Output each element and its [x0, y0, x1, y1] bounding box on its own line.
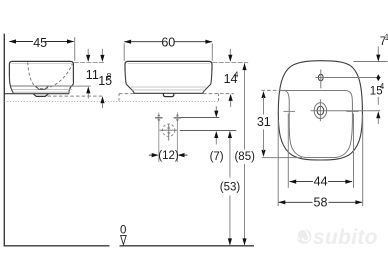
side view bottom line (counter top from wall) — [4, 93, 69, 95]
svg-text:44: 44 — [314, 175, 328, 189]
tap hole line to right — [316, 77, 381, 79]
counter dashed rectangle — [119, 93, 134, 95]
dimension 11 — [87, 49, 89, 56]
line B from drain circle — [180, 130, 237, 132]
side view interior lines — [11, 85, 73, 87]
side view drain bump — [33, 94, 48, 97]
extension line right of 45 — [74, 37, 76, 61]
back edge extension line — [353, 61, 387, 63]
svg-text:11: 11 — [86, 68, 99, 82]
dimension 44 extension lines — [287, 114, 289, 188]
front view basin outline — [125, 61, 212, 70]
rim level dashed extension (side view) — [74, 61, 105, 63]
drain rings — [314, 103, 326, 119]
top view inner bowl — [280, 91, 353, 158]
side view drain funnel — [36, 86, 49, 89]
bowl extreme ticks — [284, 110, 296, 112]
dimension 58 extension lines — [277, 120, 279, 206]
drain circle crosshair — [160, 129, 178, 131]
dimension (12) — [149, 154, 153, 156]
dimension 31 — [261, 89, 287, 91]
rim level dashed extension (front view) — [212, 61, 248, 63]
watermark subito logo — [297, 226, 378, 249]
dotted counter bottom line — [4, 101, 218, 103]
svg-text:subito: subito — [313, 226, 378, 249]
tap hole cross 2 — [176, 112, 178, 123]
drain dashed circle — [163, 124, 175, 136]
svg-text:0: 0 — [120, 224, 126, 236]
side view rim inner faint line — [12, 62, 72, 64]
dimension 60 — [124, 41, 162, 43]
svg-text:45: 45 — [33, 36, 47, 50]
dimension 44 — [290, 181, 314, 183]
svg-text:58: 58 — [314, 196, 328, 210]
shared diamond arrow at tap line — [376, 74, 380, 81]
tap hole cross 1 — [158, 112, 160, 123]
dimension (7) — [215, 106, 217, 111]
floor line — [4, 245, 110, 247]
dimension 15-8 — [101, 49, 103, 56]
svg-text:(53): (53) — [220, 181, 241, 193]
svg-text:31: 31 — [257, 115, 271, 129]
dimension (12) extension lines — [158, 122, 160, 163]
dimension 45 — [9, 41, 33, 43]
dimension (53) line — [229, 131, 231, 177]
dimension 7-1 — [377, 47, 379, 56]
side view basin outline — [9, 61, 73, 80]
top view outer oval — [278, 61, 362, 160]
dimension (85) line — [244, 63, 246, 149]
svg-text:60: 60 — [161, 36, 175, 50]
drain bottom dashed extension — [48, 95, 105, 97]
svg-text:4: 4 — [234, 69, 239, 79]
tap hole circle — [318, 74, 323, 81]
wall line — [3, 34, 5, 246]
dimension 14-4 — [229, 49, 231, 56]
svg-text:(85): (85) — [234, 151, 255, 163]
side view inner bowl dashed curve — [28, 62, 73, 88]
front view drain bump — [163, 93, 173, 96]
front view rim inner faint line — [128, 62, 210, 64]
svg-text:4: 4 — [380, 82, 385, 91]
dimension 15-4 — [377, 97, 379, 105]
front view interior lines — [131, 86, 206, 88]
svg-text:(12): (12) — [158, 150, 179, 162]
line A from tap cross — [180, 117, 219, 119]
front view bottom line — [134, 92, 203, 94]
dimension 58 — [279, 201, 313, 203]
svg-text:8: 8 — [107, 71, 112, 81]
svg-text:(7): (7) — [210, 151, 224, 163]
extension lines of 60 — [123, 44, 125, 61]
drain crosshair — [311, 110, 381, 112]
